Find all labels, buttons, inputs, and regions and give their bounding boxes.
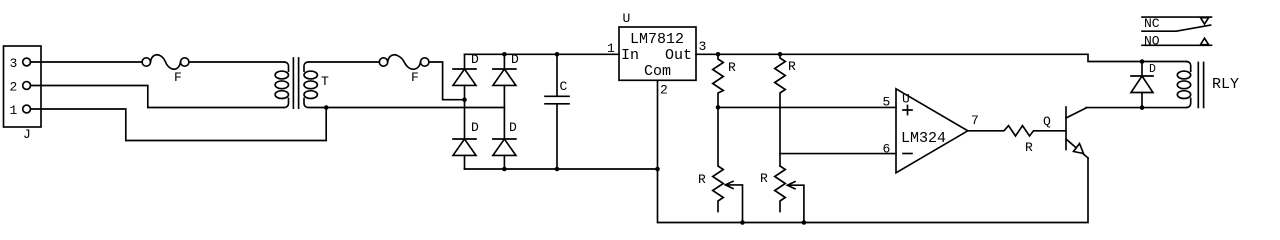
resistor R1 (713, 54, 724, 107)
wire pin3 to fuse F1 (31, 61, 143, 63)
svg-text:R: R (788, 59, 796, 74)
bridge diode D4 (bottom-right) (493, 139, 516, 169)
node capacitor bottom (555, 167, 560, 172)
node capacitor top (555, 52, 560, 57)
potentiometer R4 (775, 166, 804, 223)
wire regulator Out rail (696, 54, 1187, 61)
svg-text:RLY: RLY (1212, 76, 1239, 93)
wire fuse F2 to bridge AC1 (429, 62, 465, 100)
svg-text:LM324: LM324 (901, 130, 946, 147)
resistor R5 with output wire (968, 126, 1066, 136)
relay RLY coil (1177, 62, 1190, 108)
svg-text:Q: Q (1043, 114, 1051, 129)
wire fuse F1 to transformer (189, 61, 283, 63)
svg-text:R: R (1025, 140, 1033, 155)
relay contact NC lead (1142, 16, 1212, 18)
svg-text:Com: Com (644, 63, 671, 80)
connector J pin 1 circle (23, 105, 31, 113)
op-amp U2 LM324 triangle (896, 89, 968, 173)
node R1 bottom (716, 105, 721, 110)
node R3 wiper to rail (740, 220, 745, 225)
contact NO triangle (1201, 38, 1209, 45)
svg-text:2: 2 (10, 80, 18, 95)
svg-text:F: F (174, 70, 182, 85)
svg-text:Out: Out (665, 47, 692, 64)
bridge diode D1 (top-left) (453, 54, 476, 139)
transformer T secondary winding (304, 62, 504, 108)
wire op-amp pin5 (718, 106, 896, 108)
svg-text:J: J (23, 127, 31, 142)
transformer T core (293, 58, 298, 108)
wire bridge top rail to regulator In (465, 53, 620, 55)
svg-text:R: R (760, 171, 768, 186)
svg-text:D: D (509, 120, 517, 135)
svg-text:C: C (560, 79, 568, 94)
relay contact common lever (1142, 25, 1211, 31)
potentiometer R3 (713, 107, 743, 222)
node R1 top (716, 52, 721, 57)
wire regulator Com down and ground rail (658, 80, 1089, 222)
svg-text:3: 3 (699, 39, 707, 54)
svg-text:6: 6 (883, 142, 891, 157)
wire pin1 to secondary bottom node (31, 108, 327, 141)
contact NC triangle (1201, 18, 1209, 24)
wire op-amp pin6 (780, 153, 896, 155)
svg-text:F: F (411, 70, 419, 85)
svg-text:5: 5 (883, 95, 891, 110)
svg-text:2: 2 (660, 83, 668, 98)
op-amp plus (903, 106, 912, 115)
node bridge bottom right column (502, 167, 507, 172)
node bridge top right column (502, 52, 507, 57)
svg-text:R: R (728, 60, 736, 75)
connector J box (4, 46, 42, 127)
connector J pin 3 circle (23, 58, 31, 66)
node secondary bottom junction (324, 105, 329, 110)
svg-text:R: R (698, 172, 706, 187)
node bridge AC1 junction (462, 97, 467, 102)
regulator U1 LM7812 box (619, 27, 696, 80)
svg-text:U: U (902, 92, 910, 107)
svg-text:1: 1 (10, 103, 18, 118)
bridge diode D2 (top-right) (493, 54, 516, 139)
wire collector to relay bottom (1086, 107, 1187, 109)
node relay bottom (1140, 105, 1145, 110)
fuse F1 (142, 55, 189, 69)
svg-text:D: D (1149, 63, 1156, 76)
connector J pin 2 circle (23, 82, 31, 90)
svg-text:NC: NC (1144, 16, 1160, 31)
svg-text:U: U (623, 11, 631, 26)
node common rail corner (655, 167, 660, 172)
svg-text:3: 3 (10, 56, 18, 71)
relay contact NO lead (1142, 44, 1212, 46)
relay RLY core (1198, 62, 1203, 107)
transformer T primary winding (275, 62, 288, 108)
svg-text:NO: NO (1144, 34, 1160, 49)
svg-text:T: T (321, 74, 329, 89)
bridge diode D3 (bottom-left) (453, 139, 476, 169)
op-amp minus (903, 153, 912, 155)
diode D5 flyback (1131, 62, 1153, 108)
capacitor C (545, 54, 569, 169)
wire pin2 to transformer primary bottom (31, 86, 284, 108)
svg-text:LM7812: LM7812 (630, 31, 684, 48)
resistor R2 (775, 54, 786, 166)
node R2 top (778, 52, 783, 57)
node R4 wiper to rail (802, 220, 807, 225)
svg-text:1: 1 (607, 41, 615, 56)
transistor Q1 (1066, 107, 1088, 158)
svg-text:7: 7 (971, 113, 979, 128)
svg-text:In: In (621, 47, 639, 64)
fuse F2 (379, 55, 429, 69)
wire bridge bottom rail (465, 168, 658, 170)
node relay top (1140, 59, 1145, 64)
svg-text:D: D (471, 120, 479, 135)
